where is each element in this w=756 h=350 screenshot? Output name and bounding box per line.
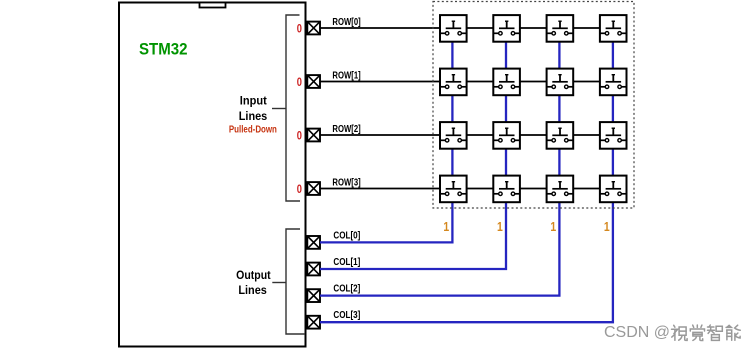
pin ROW[0] (MCU input) — [307, 22, 320, 35]
logic level 1 on COL[0] — [443, 220, 449, 234]
pin COL[2] (MCU output) — [307, 289, 320, 302]
leader line Output Lines label — [272, 282, 286, 284]
net label COL[1] — [333, 257, 360, 268]
push-button switch S11 (row 0, col 0) — [440, 15, 467, 42]
svg-text:0: 0 — [297, 77, 302, 89]
net label ROW[2] — [332, 124, 360, 135]
bracket Output Lines pin group — [286, 229, 305, 334]
svg-text:COL[2]: COL[2] — [333, 284, 360, 295]
label Pulled-Down — [229, 124, 277, 135]
bracket Input Lines pin group — [286, 15, 300, 201]
net label ROW[0] — [332, 17, 360, 28]
logic level 0 on ROW[2] — [297, 130, 302, 142]
watermark CSDN @ — [604, 324, 670, 341]
wire ROW[0] net (pin to keypad row) — [320, 27, 600, 29]
wire COL[1] net (blue, column to pin) — [320, 42, 506, 269]
logic level 0 on ROW[0] — [297, 23, 302, 35]
svg-text:1: 1 — [550, 220, 556, 234]
pin COL[0] (MCU output) — [307, 236, 320, 249]
push-button switch S22 (row 1, col 1) — [493, 69, 520, 96]
keypad module outline (dotted) — [433, 2, 634, 209]
pin ROW[2] (MCU input) — [307, 129, 320, 142]
wire COL[3] net (blue, column to pin) — [320, 42, 613, 323]
net label COL[3] — [333, 310, 360, 321]
svg-text:1: 1 — [497, 220, 503, 234]
push-button switch S44 (row 3, col 3) — [600, 176, 627, 203]
svg-text:Output: Output — [236, 268, 271, 282]
svg-text:1: 1 — [443, 220, 449, 234]
push-button switch S23 (row 1, col 2) — [547, 69, 574, 96]
svg-text:COL[1]: COL[1] — [333, 257, 360, 268]
svg-text:CSDN @: CSDN @ — [604, 324, 670, 341]
push-button switch S32 (row 2, col 1) — [493, 122, 520, 149]
svg-text:1: 1 — [604, 220, 610, 234]
push-button switch S13 (row 0, col 2) — [547, 15, 574, 42]
svg-text:Pulled-Down: Pulled-Down — [229, 124, 277, 135]
svg-text:ROW[3]: ROW[3] — [332, 177, 360, 188]
pin ROW[3] (MCU input) — [307, 182, 320, 195]
label Input Lines — [239, 94, 268, 123]
svg-text:COL[0]: COL[0] — [333, 230, 360, 241]
logic level 0 on ROW[1] — [297, 77, 302, 89]
wire COL[0] net (blue, column to pin) — [320, 42, 452, 243]
wire ROW[3] net (pin to keypad row) — [320, 188, 600, 190]
svg-text:0: 0 — [297, 184, 302, 196]
svg-text:0: 0 — [297, 23, 302, 35]
MCU top notch — [200, 3, 226, 8]
svg-text:0: 0 — [297, 130, 302, 142]
net label ROW[3] — [332, 177, 360, 188]
wire ROW[2] net (pin to keypad row) — [320, 134, 600, 136]
net label COL[0] — [333, 230, 360, 241]
logic level 0 on ROW[3] — [297, 184, 302, 196]
push-button switch S41 (row 3, col 0) — [440, 176, 467, 203]
wire ROW[1] net (pin to keypad row) — [320, 81, 600, 83]
logic level 1 on COL[1] — [497, 220, 503, 234]
svg-text:ROW[0]: ROW[0] — [332, 17, 360, 28]
label STM32 — [139, 39, 188, 58]
wire COL[2] net (blue, column to pin) — [320, 42, 559, 296]
push-button switch S31 (row 2, col 0) — [440, 122, 467, 149]
svg-text:STM32: STM32 — [139, 39, 188, 58]
push-button switch S12 (row 0, col 1) — [493, 15, 520, 42]
net label ROW[1] — [332, 70, 360, 81]
watermark CJK glyph shi4 视 — [672, 325, 688, 340]
watermark CJK glyph zhi4 智 — [708, 325, 723, 340]
svg-text:ROW[2]: ROW[2] — [332, 124, 360, 135]
svg-text:ROW[1]: ROW[1] — [332, 70, 360, 81]
push-button switch S42 (row 3, col 1) — [493, 176, 520, 203]
push-button switch S24 (row 1, col 3) — [600, 69, 627, 96]
leader line Input Lines label — [272, 108, 286, 110]
label Output Lines — [236, 268, 271, 297]
svg-text:Lines: Lines — [239, 109, 268, 123]
net label COL[2] — [333, 284, 360, 295]
svg-text:Input: Input — [240, 94, 267, 108]
watermark CJK glyph neng2 能 — [726, 325, 740, 340]
pin COL[3] (MCU output) — [307, 316, 320, 329]
watermark CJK glyph jue2 觉 — [690, 325, 704, 341]
pin ROW[1] (MCU input) — [307, 75, 320, 88]
push-button switch S14 (row 0, col 3) — [600, 15, 627, 42]
svg-text:Lines: Lines — [238, 283, 267, 297]
push-button switch S43 (row 3, col 2) — [547, 176, 574, 203]
push-button switch S34 (row 2, col 3) — [600, 122, 627, 149]
logic level 1 on COL[2] — [550, 220, 556, 234]
push-button switch S21 (row 1, col 0) — [440, 69, 467, 96]
logic level 1 on COL[3] — [604, 220, 610, 234]
svg-text:COL[3]: COL[3] — [333, 310, 360, 321]
pin COL[1] (MCU output) — [307, 263, 320, 276]
push-button switch S33 (row 2, col 2) — [547, 122, 574, 149]
MCU U1 STM32 body — [119, 3, 306, 347]
